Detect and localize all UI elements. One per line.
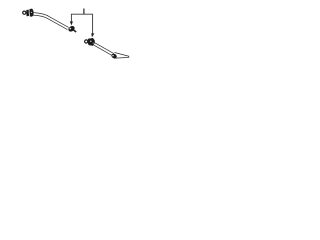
fitting B ring (85, 40, 88, 43)
arrow to hose 1 (70, 21, 73, 25)
fitting B highlights (90, 40, 92, 42)
fitting A highlights (31, 12, 32, 13)
fitting A body right lobe (30, 9, 34, 17)
hose 1 end fitting stub (73, 30, 76, 32)
fitting A gap band (28, 10, 31, 14)
arrow to hose 2 (91, 33, 94, 37)
hose 2 end clip (111, 53, 118, 60)
hose 2 tube (outer) (94, 44, 113, 55)
label tick (83, 9, 85, 15)
hose 1 tube (inner white) (34, 14, 69, 29)
hose 1 end fitting (67, 25, 75, 33)
fitting A body left lobe (26, 10, 29, 17)
hose 2 end nozzle flag (114, 53, 129, 59)
background (0, 0, 150, 71)
hose 1 tube (outer) (34, 14, 69, 29)
fitting B body (88, 38, 95, 45)
fitting A ring (23, 11, 26, 14)
hose 2 tube (inner white) (94, 44, 113, 55)
leader bracket line (71, 14, 92, 33)
